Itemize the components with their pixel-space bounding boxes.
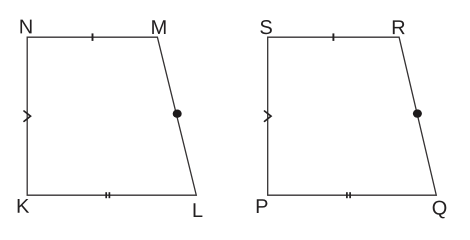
quadrilateral KLMN outline	[27, 37, 196, 195]
vertex label Q	[433, 201, 447, 219]
chevron arrow on side NK	[24, 111, 31, 121]
vertex label L	[194, 203, 203, 217]
vertex label R	[393, 20, 405, 34]
vertex label S	[260, 20, 272, 34]
midpoint dot on side ML	[173, 110, 182, 118]
tick mark on side SR	[332, 33, 334, 41]
double tick mark on side PQ	[347, 192, 350, 198]
chevron arrow on side SP	[265, 111, 272, 121]
quadrilateral PQRS outline	[268, 37, 437, 195]
tick mark on side NM	[92, 33, 94, 41]
vertex label M	[152, 20, 165, 34]
vertex label P	[257, 199, 268, 213]
vertex label K	[18, 199, 29, 213]
midpoint dot on side RQ	[413, 109, 422, 117]
vertex label N	[20, 20, 31, 34]
double tick mark on side KL	[106, 192, 109, 198]
